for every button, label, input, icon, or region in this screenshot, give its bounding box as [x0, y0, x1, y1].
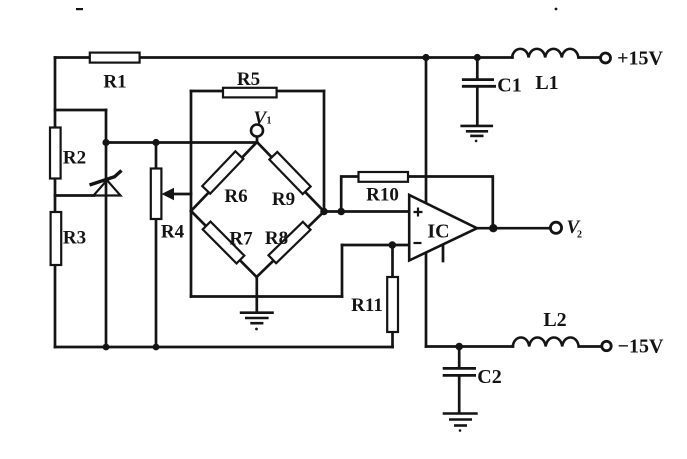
- svg-text:2: 2: [577, 230, 582, 241]
- svg-text:+15V: +15V: [617, 47, 663, 69]
- svg-text:R10: R10: [366, 184, 399, 205]
- svg-text:C2: C2: [477, 366, 501, 388]
- svg-text:L2: L2: [543, 309, 566, 331]
- svg-text:R1: R1: [103, 71, 126, 92]
- svg-text:R11: R11: [351, 295, 383, 316]
- svg-text:−15V: −15V: [618, 335, 664, 357]
- svg-text:R5: R5: [237, 69, 260, 90]
- svg-text:R6: R6: [224, 186, 247, 207]
- svg-text:L1: L1: [535, 72, 558, 94]
- svg-text:R9: R9: [272, 189, 295, 210]
- svg-text:R8: R8: [265, 228, 288, 249]
- svg-text:IC: IC: [427, 220, 449, 242]
- svg-text:R2: R2: [63, 147, 86, 168]
- svg-text:V: V: [254, 108, 268, 129]
- svg-text:R4: R4: [161, 221, 185, 242]
- svg-text:C1: C1: [497, 75, 521, 97]
- svg-text:1: 1: [267, 116, 272, 127]
- svg-text:R7: R7: [229, 228, 253, 249]
- svg-text:R3: R3: [63, 227, 86, 248]
